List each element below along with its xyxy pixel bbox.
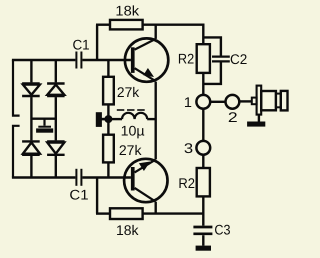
diode D3 xyxy=(22,141,40,154)
wire node1 to node3 xyxy=(202,109,204,141)
svg-text:C1: C1 xyxy=(72,36,89,52)
wire down from C1 junction xyxy=(96,178,98,214)
capacitor C3 xyxy=(193,227,212,234)
input terminal upper contact xyxy=(13,60,20,116)
svg-text:18k: 18k xyxy=(116,222,140,238)
wire vertical from top rail to C1 junction xyxy=(96,25,98,60)
svg-text:C3: C3 xyxy=(214,222,230,238)
wire node1 to node2 xyxy=(210,101,226,103)
wire Q2 collector down xyxy=(154,202,156,214)
wire C3 to ground xyxy=(202,235,204,245)
wire node3 to R2 lower xyxy=(202,155,204,168)
diode D2 xyxy=(47,84,65,97)
ground (solid bar) below C3 xyxy=(196,246,211,251)
ground (solid bar) below jack xyxy=(247,122,265,127)
svg-text:10µ: 10µ xyxy=(121,123,145,139)
wire right column upper xyxy=(55,60,57,82)
terminal tap (solid bar) xyxy=(96,112,109,127)
wire Q1 collector up xyxy=(154,25,156,39)
capacitor C1 (top) xyxy=(76,52,81,69)
wire 27k lower to base rail xyxy=(107,162,109,177)
transistor Q2 xyxy=(124,159,167,202)
resistor R2 (lower) xyxy=(197,168,210,196)
wire jack tip to ground xyxy=(258,115,260,122)
polarized capacitor (left block) xyxy=(36,119,53,133)
connector jack plug xyxy=(252,86,288,115)
capacitor C1 (bottom) xyxy=(76,169,81,186)
svg-text:1: 1 xyxy=(184,94,192,110)
wire left column lower xyxy=(30,156,32,178)
input terminal lower contact xyxy=(13,126,20,178)
diode D4 xyxy=(47,141,65,154)
wire left column middle xyxy=(30,97,32,140)
wire node2 to jack xyxy=(239,100,252,102)
wire emitter rail xyxy=(154,82,156,160)
wire middle cross rail xyxy=(31,117,55,119)
svg-text:27k: 27k xyxy=(119,142,143,158)
wire top rail left of 18k xyxy=(96,24,110,26)
wire 27k upper to junction xyxy=(107,104,109,119)
junction dot xyxy=(104,115,112,123)
svg-text:C1: C1 xyxy=(69,187,88,203)
wire C1 top to base junction xyxy=(82,59,130,61)
wire top-left rail xyxy=(12,59,76,61)
wire bottom rail left of 18k xyxy=(96,212,110,214)
wire R2 to node 1 xyxy=(202,73,204,95)
wire bottom rail right of 18k xyxy=(143,212,204,214)
node 1 xyxy=(196,95,210,109)
wire R2 lower to C3 xyxy=(202,196,204,225)
diode D1 xyxy=(22,84,40,97)
resistor 18k (bottom) xyxy=(110,208,143,219)
svg-text:C2: C2 xyxy=(230,51,247,67)
inductor 10µ xyxy=(108,110,155,119)
wire C1 bottom to base xyxy=(82,176,130,178)
wire top rail right of 18k xyxy=(143,25,204,45)
resistor 27k (upper) xyxy=(103,77,114,105)
resistor 18k (top) xyxy=(110,20,143,30)
svg-text:2: 2 xyxy=(228,109,238,125)
wire right column lower xyxy=(55,156,57,178)
resistor R2 (upper) xyxy=(197,44,210,73)
svg-text:R2: R2 xyxy=(178,175,195,191)
svg-text:18k: 18k xyxy=(115,3,140,19)
svg-text:3: 3 xyxy=(184,140,193,156)
wire 27k upper feed xyxy=(107,60,109,77)
svg-text:R2: R2 xyxy=(178,51,194,67)
svg-text:27k: 27k xyxy=(117,84,140,100)
resistor 27k (lower) xyxy=(103,135,114,163)
wire left column upper xyxy=(30,60,32,82)
wire right column middle xyxy=(55,97,57,140)
node 2 xyxy=(226,95,240,109)
transistor Q1 xyxy=(125,38,168,81)
node 3 xyxy=(196,141,210,155)
capacitor C2 xyxy=(203,37,230,84)
wire bottom-left rail xyxy=(12,176,76,178)
wire junction to 27k lower xyxy=(107,119,109,135)
